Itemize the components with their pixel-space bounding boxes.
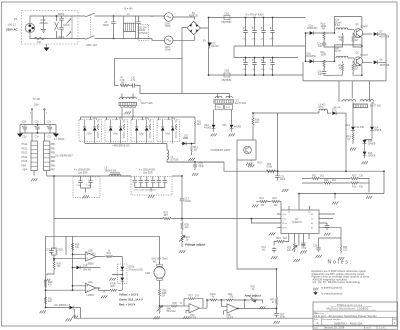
diode D7 (362, 31, 390, 38)
diode D18 (72, 265, 101, 271)
svg-text:U3B: U3B (226, 315, 231, 317)
svg-text:(34)KB: (34)KB (374, 130, 382, 132)
resistor R17 (350, 175, 369, 189)
svg-text:14: 14 (308, 212, 310, 214)
cap bank A dashed box (73, 177, 100, 198)
resistor R30 (53, 259, 62, 270)
rectified bus (85, 144, 167, 151)
svg-text:C16a: C16a (76, 185, 82, 187)
svg-text:U3A: U3A (88, 281, 93, 284)
label T2 (33, 97, 40, 107)
svg-text:R22: R22 (273, 198, 278, 200)
wire primary link (122, 86, 230, 100)
svg-text:100nF: 100nF (139, 30, 146, 32)
floating ground R42 (259, 306, 265, 309)
svg-text:250VAC: 250VAC (40, 22, 49, 25)
diode D11 (223, 110, 242, 133)
diode D8 (362, 34, 390, 81)
inductor L6 (319, 104, 332, 113)
rectifier box DB1 (79, 118, 102, 144)
resistor R13 (191, 143, 199, 155)
svg-text:10A: 10A (37, 41, 42, 44)
U2 bottom pins (289, 234, 309, 246)
connector P1 (25, 23, 34, 32)
fuse CB1 (222, 14, 233, 25)
svg-text:D8: D8 (380, 60, 384, 62)
svg-text:60Hz: 60Hz (165, 50, 171, 52)
svg-text:TL494CN: TL494CN (292, 222, 302, 224)
svg-text:PB4: PB4 (22, 165, 27, 167)
svg-text:Q1, Q2, D7, D8-D9 require heat: Q1, Q2, D7, D8-D9 require heatsinking. (313, 280, 361, 284)
resistor R7 snubber (120, 77, 130, 86)
floating ground R30 chain (44, 279, 50, 282)
svg-text:13.8 Volt - 40 Ampere Switchin: 13.8 Volt - 40 Ampere Switching Power Su… (314, 314, 377, 318)
trimpot R39 (157, 306, 177, 314)
shunt label (152, 258, 169, 261)
svg-text:5/77/26: 5/77/26 (171, 160, 179, 162)
inductor L5 (167, 150, 224, 162)
svg-text:441KB: 441KB (204, 127, 211, 129)
svg-text:27k: 27k (230, 297, 235, 299)
svg-text:1 of 1: 1 of 1 (379, 326, 386, 330)
svg-text:100nF: 100nF (185, 201, 192, 203)
AC entry dashed enclosure (22, 11, 79, 45)
resistor R19 (347, 133, 354, 144)
svg-text:C3g: C3g (261, 69, 266, 71)
main low rail (47, 176, 182, 249)
resistor R25 (163, 212, 171, 220)
floating ground R13 (189, 158, 195, 161)
svg-text:100R: 100R (321, 55, 327, 57)
svg-text:C2f: C2f (47, 137, 51, 139)
svg-text:BUV47: BUV47 (361, 55, 369, 57)
sense rail upper (54, 218, 277, 220)
wire bridge output (200, 18, 208, 76)
CE dashed box (138, 25, 149, 41)
junction dot aux (252, 112, 254, 114)
svg-text:PS11: PS11 (22, 148, 28, 150)
resistor R11 (194, 117, 202, 144)
svg-text:FB7: FB7 (51, 170, 56, 172)
svg-text:R40: R40 (173, 303, 178, 305)
svg-text:is floating ground.: is floating ground. (321, 285, 343, 289)
inductor L3 (105, 168, 132, 176)
svg-text:72k: 72k (359, 186, 364, 188)
AC source LA2 (164, 36, 173, 52)
svg-text:100uH: 100uH (335, 51, 342, 53)
wire to AC source circles (152, 16, 195, 58)
svg-text:REV: REV (393, 319, 398, 321)
diode D15 (363, 140, 376, 152)
svg-text:PS13: PS13 (22, 157, 28, 159)
svg-text:R17: R17 (352, 175, 357, 177)
svg-text:1uF: 1uF (318, 74, 323, 76)
svg-text:R20: R20 (258, 163, 263, 165)
svg-text:D1a: D1a (309, 25, 314, 27)
bottom DC rail (209, 74, 304, 76)
svg-text:R33: R33 (324, 180, 329, 182)
svg-text:KBPC35: KBPC35 (189, 16, 199, 18)
floating ground U3A (72, 289, 74, 291)
capacitor C8 snubber (129, 77, 138, 87)
resistor pair R33 (302, 180, 350, 184)
svg-text:FB/TB/80: FB/TB/80 (222, 22, 233, 24)
svg-text:T1: T1 (138, 100, 141, 103)
trimpot R26 (287, 243, 307, 252)
op-amp U3C (186, 300, 207, 320)
diode D17 (45, 305, 81, 319)
resistor R23 (274, 238, 289, 246)
capacitor C20 (193, 161, 205, 170)
connector J2 (44, 141, 50, 171)
svg-text:2k2: 2k2 (320, 175, 324, 177)
fuse CB2 (222, 71, 233, 82)
svg-text:(34) KB: (34) KB (333, 107, 341, 109)
svg-text:E2: E2 (311, 228, 313, 230)
resistor pair R32 (302, 175, 350, 179)
svg-text:5k6: 5k6 (283, 238, 287, 240)
diode D1a (305, 25, 335, 35)
svg-text:January 18, 2008: January 18, 2008 (324, 326, 345, 330)
svg-text:FB1: FB1 (51, 148, 56, 150)
label D19 (129, 267, 144, 272)
rectifier box DB2 (105, 118, 128, 144)
bridge rectifier B1 (187, 13, 200, 35)
svg-text:T3: T3 (236, 100, 239, 103)
svg-text:C1: C1 (311, 214, 313, 216)
junction sense tap (251, 218, 253, 220)
capacitor C24 (274, 312, 285, 318)
stage return bus (303, 62, 386, 81)
svg-text:R25: R25 (164, 212, 169, 214)
capacitor C1 label (40, 19, 49, 25)
trimpot voltage adjust (179, 235, 190, 253)
capacitor C2b2 (34, 121, 39, 138)
wire comparator column (47, 269, 54, 275)
svg-text:C2c: C2c (47, 121, 52, 123)
svg-text:2 IN-: 2 IN- (282, 219, 286, 221)
ground inside enclosure (41, 16, 46, 33)
svg-text:1uF: 1uF (318, 46, 323, 48)
capacitor C5 100nF/X2 (103, 15, 116, 39)
svg-text:FB4: FB4 (23, 170, 28, 172)
resistor R41 feedback (206, 294, 225, 301)
svg-text:2k2: 2k2 (332, 180, 336, 182)
capacitor C4 2200p (58, 33, 65, 39)
svg-text:D2a: D2a (307, 54, 312, 56)
svg-text:R28: R28 (59, 250, 64, 252)
svg-text:5W: 5W (121, 83, 125, 85)
capacitor C6 (136, 16, 140, 39)
NTC R1 (203, 41, 219, 49)
svg-text:1k: 1k (339, 40, 342, 42)
floating ground C19 (271, 256, 277, 259)
svg-text:R5c: R5c (145, 118, 150, 120)
svg-text:R32: R32 (312, 175, 317, 177)
svg-text:C3b: C3b (252, 39, 257, 41)
floating ground mid (246, 163, 252, 166)
resistor R43 (270, 269, 278, 312)
svg-text:CE 1%: CE 1% (139, 28, 146, 30)
svg-text:16 IN: 16 IN (282, 228, 287, 230)
svg-text:← 1/2B: ← 1/2B (142, 273, 150, 275)
svg-text:L3: L3 (105, 168, 108, 170)
section divider wires (46, 236, 160, 307)
svg-text:C2d: C2d (22, 137, 27, 139)
svg-text:EA/77-262: EA/77-262 (235, 102, 247, 105)
svg-text:U3B: U3B (88, 251, 93, 253)
svg-text:R23: R23 (277, 238, 282, 240)
resistor R16 (350, 182, 369, 188)
floating ground C20 (192, 173, 198, 176)
title block number row (314, 318, 398, 325)
svg-text:D4a: D4a (88, 134, 93, 136)
cap bank labels (243, 39, 275, 72)
svg-text:Size: Size (314, 319, 319, 321)
capacitor C21 (275, 170, 286, 181)
svg-text:0.5W: 0.5W (267, 167, 273, 169)
capacitor C3d (270, 17, 275, 46)
capacitor C26 (313, 238, 321, 252)
inductor L2a (334, 17, 362, 34)
svg-text:Low ESR: Low ESR (78, 173, 88, 175)
capacitor C1b (317, 42, 335, 48)
svg-text:2k7: 2k7 (355, 40, 359, 42)
svg-text:A: A (317, 321, 319, 325)
floating ground C23 (300, 251, 306, 254)
svg-text:Date:: Date: (314, 326, 320, 329)
top DC rail (209, 17, 306, 19)
svg-text:1 IN+: 1 IN+ (282, 214, 287, 216)
svg-text:LM358: LM358 (87, 264, 95, 266)
svg-text:(34)KB: (34)KB (368, 155, 376, 157)
svg-text:D4d: D4d (166, 134, 171, 136)
rectifier box DB4 (157, 118, 180, 144)
svg-text:1k: 1k (186, 240, 189, 242)
svg-text:10D-20: 10D-20 (211, 46, 219, 48)
svg-text:C3e: C3e (243, 69, 248, 71)
current loop wire (237, 160, 277, 269)
resistor R38 (158, 285, 167, 306)
svg-text:TB/500 5W: TB/500 5W (105, 170, 117, 172)
floating ground R44 (338, 257, 344, 260)
capacitor C3b (252, 17, 257, 46)
svg-text:P1: P1 (14, 17, 18, 21)
switch SW1 (78, 13, 108, 47)
note chassis ground (313, 291, 343, 296)
capacitor C17 (180, 175, 192, 219)
floating ground bus (66, 319, 72, 322)
svg-text:50A-5A3: 50A-5A3 (167, 310, 177, 313)
resistor R5 (335, 61, 344, 75)
filter rail upper (20, 124, 56, 126)
svg-text:C27: C27 (46, 250, 51, 252)
floating ground R31 (40, 311, 46, 314)
floating ground LED mid (110, 278, 116, 281)
floating ground R39 (154, 317, 160, 320)
svg-text:D19a: D19a (129, 267, 135, 269)
svg-text:C3h: C3h (270, 69, 275, 71)
svg-text:C2a: C2a (22, 121, 27, 123)
resistor R37 feedback (184, 295, 203, 308)
chassis ground right (53, 125, 65, 141)
resistor R28 (181, 219, 190, 235)
svg-text:12k: 12k (287, 250, 292, 252)
junction dots vref (277, 170, 385, 194)
meter M1 (142, 236, 165, 285)
svg-text:R5d: R5d (171, 118, 176, 120)
wire: P1 top to rail (30, 16, 78, 23)
resistor R2a (321, 52, 327, 70)
svg-text:4.7 100nF: 4.7 100nF (54, 139, 65, 141)
label low-ESR bank B (139, 170, 156, 175)
svg-text:4 x 1500uF/35V: 4 x 1500uF/35V (139, 170, 156, 172)
chassis ground left (17, 125, 23, 138)
floating ground U3C (183, 316, 189, 319)
floating ground R19 (350, 148, 356, 151)
svg-text:10uF: 10uF (280, 179, 286, 181)
capacitor C3c (261, 17, 266, 46)
floating ground C22 (324, 233, 330, 236)
svg-text:4.7n: 4.7n (131, 80, 136, 82)
svg-text:R7: R7 (121, 77, 125, 79)
svg-text:441KB: 441KB (234, 126, 241, 128)
svg-text:PS12: PS12 (22, 153, 28, 155)
svg-text:72k: 72k (359, 175, 364, 177)
svg-text:470R: 470R (110, 284, 116, 286)
svg-text:(34) KB: (34) KB (83, 270, 91, 272)
svg-text:D11: D11 (223, 125, 228, 127)
svg-text:Voltage adjust: Voltage adjust (185, 243, 205, 247)
capacitor C3f (252, 57, 257, 76)
floating ground R21 (252, 205, 258, 208)
floating ground T1 (125, 112, 131, 115)
svg-text:FB/TB/80: FB/TB/80 (222, 80, 233, 82)
varistor RV1 (55, 15, 59, 38)
diode D6 (181, 136, 195, 146)
filter rail lower (20, 132, 56, 134)
svg-text:MUR1560: MUR1560 (307, 28, 318, 30)
current limit box (211, 140, 263, 165)
svg-text:C16b: C16b (86, 185, 92, 187)
svg-text:N = NH: N = NH (125, 8, 133, 11)
rectifier box DB3 (131, 118, 154, 144)
svg-text:Q1: Q1 (356, 24, 360, 26)
svg-text:C26: C26 (313, 246, 318, 248)
svg-text:T3S: T3S (226, 107, 230, 109)
svg-text:2200p: 2200p (58, 13, 65, 16)
capacitor C3a (243, 17, 248, 46)
wire mid bus to stages (305, 33, 307, 61)
op-amp U3B (53, 251, 100, 266)
diode D10 (204, 110, 215, 133)
svg-text:230V 10A: 230V 10A (86, 44, 97, 47)
svg-text:U4 LM385Z-2.5: U4 LM385Z-2.5 (54, 305, 71, 307)
svg-text:10k: 10k (274, 205, 279, 207)
floating ground current limit (248, 160, 254, 167)
resistor R29 (44, 280, 53, 287)
svg-text:T34-138: T34-138 (355, 127, 364, 129)
fuse F1 (35, 37, 44, 44)
svg-text:1k5: 1k5 (194, 150, 198, 152)
svg-text:8 x 470uF 400V: 8 x 470uF 400V (246, 13, 265, 17)
sense rail lower (251, 219, 277, 223)
LED block D19 (113, 264, 128, 290)
svg-text:C2: C2 (311, 219, 313, 221)
svg-text:100nF: 100nF (63, 24, 70, 27)
transformer T4 (342, 100, 382, 108)
wire: P1 bottom to rail (30, 33, 78, 39)
resistor R22 (271, 198, 281, 210)
transistor Q2 (354, 45, 369, 76)
svg-text:D12: D12 (332, 110, 337, 112)
connector pin labels (22, 144, 56, 171)
IC U2 (277, 206, 323, 234)
title block frame (313, 302, 398, 329)
svg-text:PS14: PS14 (22, 161, 28, 163)
svg-text:4R7: 4R7 (164, 215, 169, 217)
svg-text:R34: R34 (107, 253, 112, 255)
svg-text:C2b: C2b (35, 121, 40, 123)
svg-text:R37: R37 (189, 295, 194, 297)
choke L1 (124, 8, 136, 39)
transformer T1 (119, 97, 153, 108)
capacitor C3g (261, 57, 266, 76)
resistor R1a (321, 24, 327, 42)
resistor R44 (340, 238, 348, 254)
capacitor C2a (22, 121, 27, 138)
svg-text:C25: C25 (343, 250, 348, 252)
floating ground bank B (148, 195, 154, 198)
svg-text:2k2: 2k2 (197, 124, 201, 126)
svg-text:U3C: U3C (190, 315, 195, 317)
title block company (327, 303, 377, 311)
connector P1 labels (6, 17, 19, 32)
svg-text:Amp adjust: Amp adjust (245, 294, 261, 298)
transistor Q1 (354, 17, 369, 47)
wire U3A output joins LED bottom wire (96, 288, 107, 298)
svg-text:1R: 1R (162, 296, 165, 298)
svg-text:22uF: 22uF (199, 166, 205, 168)
svg-text:18 x FB/F8/1867: 18 x FB/F8/1867 (55, 154, 73, 157)
svg-text:100-12: 100-12 (8, 23, 17, 27)
svg-text:15 IN: 15 IN (282, 223, 287, 225)
svg-text:PS10: PS10 (22, 144, 28, 146)
resistor R31 (44, 297, 53, 304)
svg-text:1n2: 1n2 (262, 249, 267, 251)
diode D15 (365, 103, 382, 141)
ground stub vref rail (332, 193, 338, 205)
diode D2a (305, 54, 335, 64)
svg-text:0.5A: 0.5A (319, 106, 324, 109)
floating ground C24 (274, 321, 280, 324)
svg-text:40TPS08: 40TPS08 (380, 65, 390, 67)
svg-text:7k: 7k (180, 303, 183, 305)
svg-text:MBR: MBR (183, 138, 188, 140)
wire U2 aux (319, 228, 342, 238)
resistor R36 (71, 243, 80, 250)
svg-text:D4b: D4b (114, 134, 119, 136)
output rail (167, 162, 384, 171)
capacitor C2c (47, 121, 52, 138)
svg-text:1k: 1k (339, 68, 342, 70)
svg-text:Low ESR: Low ESR (143, 173, 153, 175)
svg-text:Notes:: Notes: (328, 259, 353, 265)
svg-text:Q2: Q2 (356, 52, 360, 54)
svg-text:7k: 7k (212, 297, 215, 299)
title block title (314, 312, 377, 318)
svg-text:2k2: 2k2 (185, 227, 189, 229)
